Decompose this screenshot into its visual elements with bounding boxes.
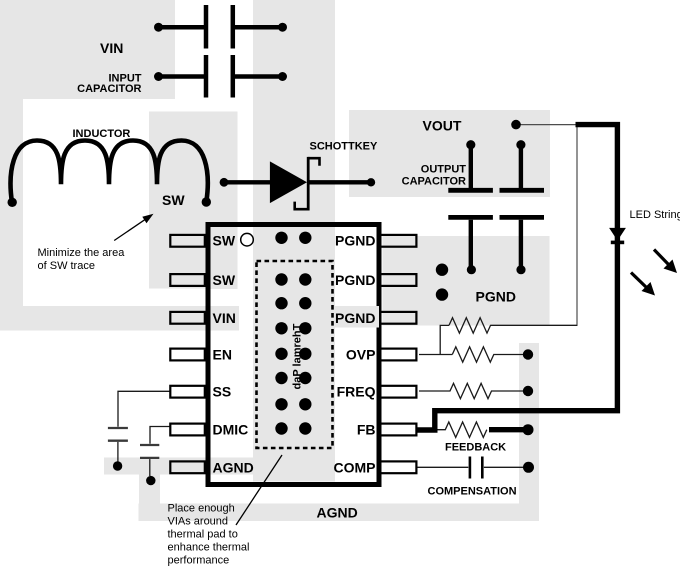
svg-text:Minimize the area: Minimize the area — [38, 247, 126, 259]
svg-text:Place enough: Place enough — [168, 503, 235, 515]
svg-text:thermal pad to: thermal pad to — [168, 529, 238, 541]
svg-text:AGND: AGND — [213, 459, 254, 475]
svg-text:CAPACITOR: CAPACITOR — [402, 176, 466, 188]
svg-text:of SW trace: of SW trace — [38, 260, 95, 272]
svg-text:PGND: PGND — [335, 310, 375, 326]
svg-text:OUTPUT: OUTPUT — [421, 164, 467, 176]
svg-text:CAPACITOR: CAPACITOR — [77, 83, 141, 95]
svg-text:PGND: PGND — [476, 289, 516, 305]
svg-text:SW: SW — [213, 233, 236, 249]
svg-text:DMIC: DMIC — [213, 422, 249, 438]
svg-text:VIN: VIN — [100, 40, 123, 56]
svg-text:SW: SW — [162, 192, 185, 208]
svg-text:VIAs around: VIAs around — [168, 516, 229, 528]
svg-text:FREQ: FREQ — [337, 384, 376, 400]
svg-text:AGND: AGND — [317, 505, 358, 521]
svg-text:PGND: PGND — [335, 233, 375, 249]
svg-text:COMP: COMP — [334, 459, 376, 475]
svg-text:INDUCTOR: INDUCTOR — [73, 128, 131, 140]
svg-text:performance: performance — [168, 555, 230, 566]
svg-text:VIN: VIN — [213, 310, 236, 326]
svg-text:FEEDBACK: FEEDBACK — [445, 442, 506, 454]
svg-text:SW: SW — [213, 272, 236, 288]
svg-text:daP lamrehT: daP lamrehT — [292, 323, 304, 389]
svg-text:COMPENSATION: COMPENSATION — [428, 486, 517, 498]
svg-text:FB: FB — [357, 422, 376, 438]
svg-text:SCHOTTKEY: SCHOTTKEY — [310, 141, 379, 153]
svg-text:EN: EN — [213, 347, 232, 363]
svg-text:VOUT: VOUT — [423, 118, 462, 134]
svg-text:enhance thermal: enhance thermal — [168, 542, 250, 554]
svg-text:PGND: PGND — [335, 272, 375, 288]
svg-text:OVP: OVP — [346, 347, 376, 363]
svg-text:SS: SS — [213, 384, 232, 400]
svg-text:LED String: LED String — [630, 209, 680, 221]
